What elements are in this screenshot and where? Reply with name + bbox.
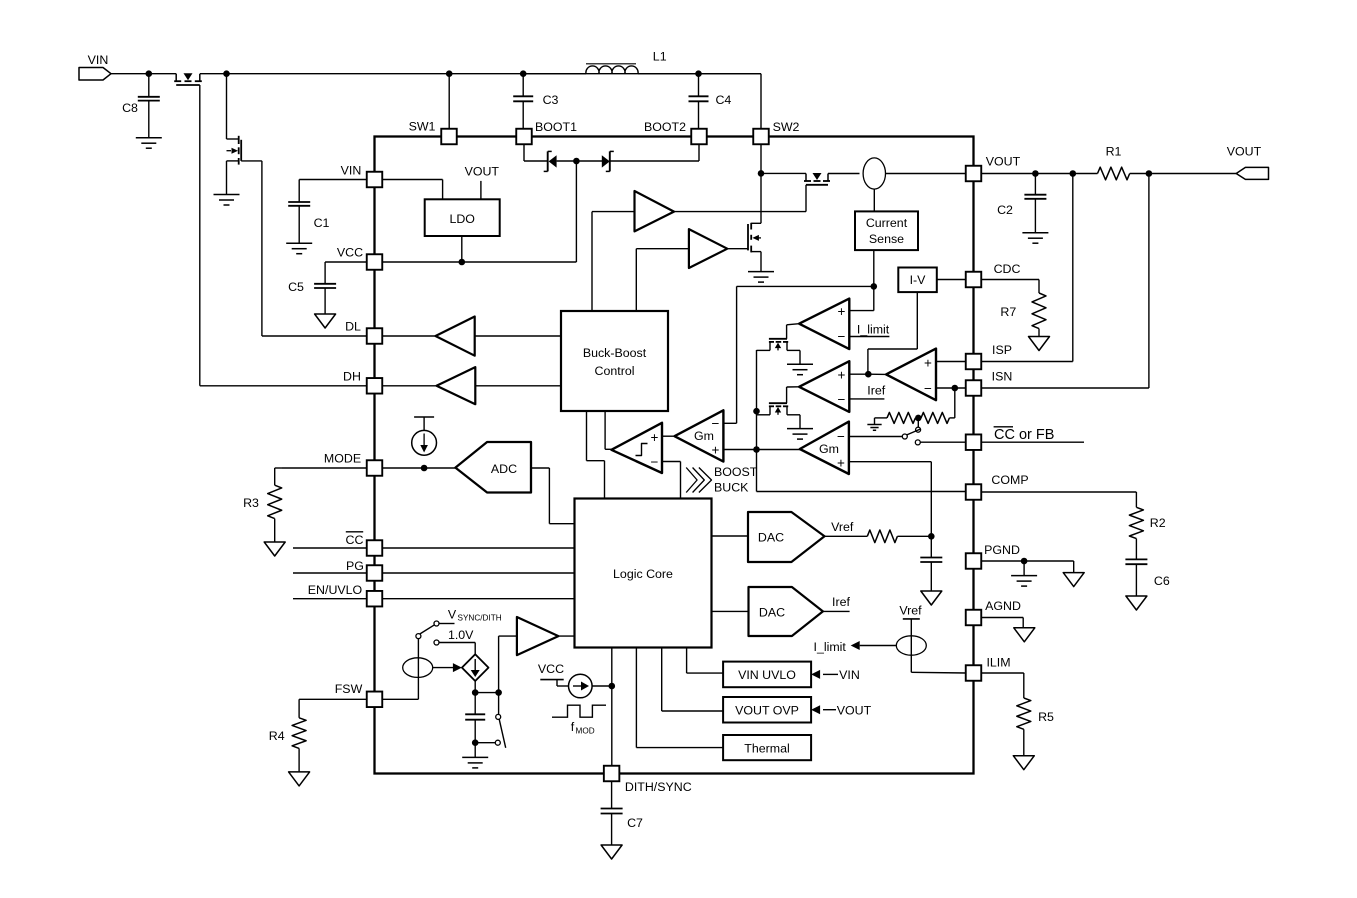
svg-text:R1: R1 (1106, 145, 1122, 159)
svg-text:Logic Core: Logic Core (613, 567, 673, 581)
svg-text:CC: CC (346, 533, 364, 547)
svg-text:PGND: PGND (984, 543, 1020, 557)
svg-text:C7: C7 (627, 816, 643, 830)
svg-text:DITH/SYNC: DITH/SYNC (625, 780, 692, 794)
svg-text:BOOST: BOOST (714, 465, 758, 479)
svg-text:+: + (651, 430, 659, 445)
svg-text:C8: C8 (122, 101, 138, 115)
svg-text:R4: R4 (269, 729, 285, 743)
svg-text:C2: C2 (997, 203, 1013, 217)
svg-text:FSW: FSW (335, 682, 363, 696)
svg-text:f: f (571, 720, 575, 734)
svg-text:−: − (712, 416, 720, 431)
svg-text:Vref: Vref (899, 604, 922, 618)
svg-text:C3: C3 (543, 93, 559, 107)
svg-text:VCC: VCC (337, 246, 363, 260)
svg-text:VIN: VIN (341, 164, 362, 178)
svg-text:R7: R7 (1000, 305, 1016, 319)
svg-text:VIN: VIN (839, 668, 860, 682)
svg-text:SW1: SW1 (409, 120, 436, 134)
svg-text:CDC: CDC (994, 262, 1021, 276)
svg-text:ADC: ADC (491, 462, 517, 476)
svg-text:+: + (837, 456, 845, 471)
svg-text:VOUT: VOUT (1227, 145, 1262, 159)
svg-text:I_limit: I_limit (814, 640, 847, 654)
svg-text:+: + (838, 304, 846, 319)
svg-text:VOUT: VOUT (837, 704, 872, 718)
svg-text:DL: DL (345, 320, 361, 334)
svg-text:DH: DH (343, 370, 361, 384)
svg-text:VCC: VCC (538, 662, 564, 676)
svg-text:−: − (651, 455, 659, 470)
svg-text:VOUT: VOUT (465, 165, 500, 179)
svg-text:Gm: Gm (694, 429, 714, 443)
svg-text:VOUT: VOUT (986, 155, 1021, 169)
svg-text:BUCK: BUCK (714, 480, 749, 494)
svg-text:SYNC/DITH: SYNC/DITH (458, 614, 502, 623)
svg-text:Thermal: Thermal (744, 742, 789, 756)
svg-text:CC or FB: CC or FB (994, 427, 1054, 443)
svg-text:1.0V: 1.0V (448, 628, 474, 642)
svg-text:Control: Control (595, 364, 635, 378)
svg-text:BOOT2: BOOT2 (644, 120, 686, 134)
svg-text:L1: L1 (653, 50, 667, 64)
svg-text:MOD: MOD (576, 727, 595, 736)
svg-text:C4: C4 (715, 93, 731, 107)
svg-text:ISN: ISN (992, 370, 1013, 384)
svg-text:AGND: AGND (985, 599, 1021, 613)
svg-text:−: − (837, 429, 845, 444)
svg-text:−: − (838, 329, 846, 344)
svg-text:+: + (924, 356, 932, 371)
svg-text:C5: C5 (288, 280, 304, 294)
svg-text:LDO: LDO (449, 212, 475, 226)
svg-text:+: + (838, 368, 846, 383)
svg-text:Iref: Iref (832, 595, 850, 609)
svg-text:SW2: SW2 (773, 120, 800, 134)
svg-text:V: V (448, 608, 457, 622)
svg-text:COMP: COMP (991, 473, 1028, 487)
svg-text:BOOT1: BOOT1 (535, 120, 577, 134)
svg-text:DAC: DAC (758, 531, 784, 545)
svg-text:C1: C1 (314, 216, 330, 230)
svg-text:VOUT OVP: VOUT OVP (735, 704, 799, 718)
svg-text:Iref: Iref (867, 384, 885, 398)
svg-text:PG: PG (346, 559, 364, 573)
svg-text:+: + (712, 443, 720, 458)
svg-text:Sense: Sense (869, 232, 904, 246)
svg-text:R3: R3 (243, 496, 259, 510)
svg-text:C6: C6 (1154, 574, 1170, 588)
svg-text:I-V: I-V (910, 273, 927, 287)
svg-text:VIN UVLO: VIN UVLO (738, 668, 796, 682)
svg-text:DAC: DAC (759, 606, 785, 620)
svg-text:VIN: VIN (88, 53, 109, 67)
svg-text:Gm: Gm (819, 442, 839, 456)
svg-text:EN/UVLO: EN/UVLO (308, 583, 363, 597)
svg-text:−: − (838, 392, 846, 407)
svg-text:ILIM: ILIM (986, 656, 1010, 670)
svg-text:Current: Current (866, 216, 908, 230)
svg-text:R2: R2 (1150, 516, 1166, 530)
svg-text:Buck-Boost: Buck-Boost (583, 346, 647, 360)
svg-text:−: − (924, 381, 932, 396)
svg-text:ISP: ISP (992, 343, 1012, 357)
svg-text:MODE: MODE (324, 452, 361, 466)
svg-text:Vref: Vref (831, 520, 854, 534)
svg-text:R5: R5 (1038, 710, 1054, 724)
svg-text:I_limit: I_limit (857, 323, 890, 337)
